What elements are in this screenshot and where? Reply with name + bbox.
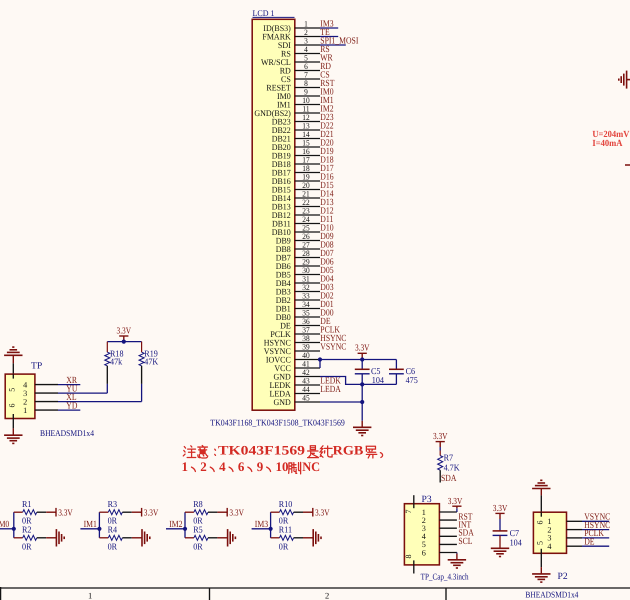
- svg-text:BHEADSMD1x4: BHEADSMD1x4: [40, 428, 95, 438]
- svg-text:4.7K: 4.7K: [444, 463, 460, 473]
- pin 1 ID(BS3): [295, 27, 320, 29]
- connector TP body: [5, 374, 35, 418]
- pin 10 IM1: [295, 104, 320, 106]
- wire TP pin5 to ground: [12, 363, 14, 374]
- svg-text:5: 5: [8, 388, 17, 392]
- svg-text:3.3V: 3.3V: [144, 507, 159, 517]
- net label TE (pin 2): [320, 36, 338, 38]
- pin 45 GND: [295, 401, 320, 403]
- wire P2 pin5 to ground: [540, 553, 542, 567]
- svg-text:R11: R11: [279, 525, 292, 535]
- wire P3 pin6 to ground: [456, 553, 458, 554]
- svg-text:SCL: SCL: [458, 537, 472, 547]
- wire IM0 vertical: [13, 512, 15, 538]
- net label IM3: [252, 528, 271, 530]
- resistor R7 4.7K: [439, 451, 441, 456]
- ground P3: [448, 560, 466, 568]
- svg-text:R7: R7: [444, 453, 454, 463]
- pin 8 RESET: [295, 87, 320, 89]
- pin 32 DB3: [295, 291, 320, 293]
- net label IM1: [80, 528, 99, 530]
- svg-text:47K: 47K: [144, 357, 158, 367]
- power 3.3V C7: [495, 513, 504, 519]
- pin 17 DB18: [295, 163, 320, 165]
- svg-text:7: 7: [404, 510, 413, 514]
- svg-text:3.3V: 3.3V: [117, 325, 132, 335]
- power 3.3V R3: [141, 508, 142, 517]
- wire IM2 vertical: [184, 512, 186, 538]
- svg-text:0R: 0R: [193, 541, 203, 551]
- svg-text:NC: NC: [302, 459, 320, 474]
- connector P2 body: [533, 512, 566, 553]
- pin 33 DB2: [295, 299, 320, 301]
- pin 11 GND(BS2): [295, 112, 320, 114]
- pin 22 DB13: [295, 206, 320, 208]
- svg-text:DE: DE: [584, 537, 595, 547]
- pin 43 LEDK: [295, 384, 320, 386]
- resistor R5 0R: [185, 537, 194, 539]
- pin 24 DB11: [295, 223, 320, 225]
- svg-text:P3: P3: [422, 494, 432, 505]
- resistor R3 0R: [99, 511, 108, 513]
- wire TP pin6 to ground: [12, 419, 14, 429]
- pin 20 DB15: [295, 189, 320, 191]
- svg-text:P2: P2: [558, 571, 568, 582]
- resistor R18: [106, 342, 108, 353]
- resistor R4 0R: [99, 537, 108, 539]
- svg-text:R3: R3: [108, 499, 118, 509]
- svg-text:R10: R10: [279, 499, 293, 509]
- power 3.3V TP: [119, 336, 128, 342]
- pin 31 DB4: [295, 282, 320, 284]
- capacitor C5: [355, 368, 370, 370]
- pin 38 HSYNC: [295, 342, 320, 344]
- pin 40 IOVCC: [295, 359, 320, 361]
- ground R5: [228, 529, 236, 546]
- ground above P2 (inverted): [532, 480, 550, 488]
- pin 37 PCLK: [295, 333, 320, 335]
- note text line 1: [183, 446, 195, 458]
- svg-text:4: 4: [219, 459, 226, 474]
- wire P2 pin6 to ground: [540, 495, 542, 512]
- connector LCD 1 body: [252, 19, 295, 410]
- svg-text:GND: GND: [274, 397, 291, 407]
- svg-text:104: 104: [510, 537, 523, 547]
- svg-text:TK043F1168_TK043F1508_TK043F15: TK043F1168_TK043F1508_TK043F1569: [210, 418, 345, 428]
- svg-text:3.3V: 3.3V: [448, 496, 463, 506]
- power 3.3V R10: [312, 508, 313, 517]
- pin 16 DB19: [295, 155, 320, 157]
- svg-text:6: 6: [238, 459, 245, 474]
- pin 3 SDI: [295, 44, 320, 46]
- svg-text:6: 6: [422, 548, 426, 557]
- connector P3 body: [404, 504, 439, 565]
- svg-text:TP_Cap_4.3inch: TP_Cap_4.3inch: [421, 571, 469, 581]
- svg-text:3.3V: 3.3V: [493, 503, 508, 513]
- svg-text:6: 6: [8, 404, 17, 408]
- wire IM1 vertical: [98, 512, 100, 538]
- ground above TP (inverted): [4, 347, 22, 355]
- svg-text:3.3V: 3.3V: [229, 507, 244, 517]
- svg-text:RGB: RGB: [333, 443, 364, 458]
- svg-text:0R: 0R: [108, 541, 118, 551]
- svg-text:R5: R5: [193, 525, 203, 535]
- svg-text:BHEADSMD1x4: BHEADSMD1x4: [525, 590, 579, 600]
- svg-text:IM0: IM0: [0, 520, 10, 530]
- wire C7 top: [499, 519, 501, 531]
- pin 6 RD: [295, 70, 320, 72]
- pin 23 DB12: [295, 214, 320, 216]
- net label IM2: [166, 528, 185, 530]
- pin 7 CS: [295, 78, 320, 80]
- pin 12 DB23: [295, 121, 320, 123]
- wire pin41 to rail: [319, 360, 321, 369]
- svg-text:0R: 0R: [279, 541, 289, 551]
- svg-text:45: 45: [302, 393, 309, 402]
- svg-text:IM3: IM3: [255, 520, 269, 530]
- ground R4: [142, 529, 150, 546]
- pin 25 DB10: [295, 231, 320, 233]
- junction 3.3V/C5 top: [360, 357, 364, 361]
- power 3.3V P3: [452, 506, 461, 508]
- pin 28 DB7: [295, 257, 320, 259]
- svg-text:47k: 47k: [110, 357, 123, 367]
- resistor R1 0R: [14, 511, 23, 513]
- ground below P2: [532, 574, 550, 582]
- net label PCLK / wire: [582, 537, 609, 539]
- ground LCD: [353, 427, 371, 435]
- capacitor C7 104: [493, 530, 508, 532]
- junction IM3: [269, 527, 273, 531]
- wire C7 bottom: [499, 535, 501, 548]
- pin 5 WR/SCL: [295, 61, 320, 63]
- power 3.3V LCD: [358, 353, 367, 359]
- pin 14 DB21: [295, 138, 320, 140]
- junction pin45/ground: [360, 400, 364, 404]
- svg-text:IM1: IM1: [84, 520, 98, 530]
- resistor R8 0R: [185, 511, 194, 513]
- svg-text:6: 6: [535, 521, 544, 525]
- svg-text:VSYNC: VSYNC: [320, 342, 346, 352]
- svg-text:104: 104: [372, 375, 385, 385]
- pin 44 LEDA: [295, 393, 320, 395]
- power 3.3V R1: [55, 508, 56, 517]
- pin 34 DB1: [295, 308, 320, 310]
- svg-text:3.3V: 3.3V: [433, 431, 448, 441]
- P3 pin8 stub: [413, 565, 415, 574]
- junction IM2: [183, 527, 187, 531]
- wire C6 branch: [395, 360, 397, 370]
- svg-text:1: 1: [23, 406, 27, 415]
- net label VSYNC / wire: [582, 520, 609, 522]
- svg-text:R4: R4: [108, 525, 118, 535]
- ground R2: [56, 529, 64, 546]
- pin 35 DB0: [295, 316, 320, 318]
- wire pin42 GND to cap rail: [320, 377, 396, 385]
- wire 3.3V to R7: [439, 447, 441, 451]
- wire IM3 vertical: [270, 512, 272, 538]
- net label HSYNC / wire: [582, 529, 609, 531]
- capacitor C6: [389, 368, 404, 370]
- svg-text:4: 4: [547, 542, 551, 551]
- wire P3 pin1 to 3.3V: [456, 508, 458, 512]
- svg-text:3.3V: 3.3V: [58, 507, 73, 517]
- svg-text:9: 9: [257, 459, 264, 474]
- power 3.3V R8: [226, 508, 227, 517]
- pin 2 FMARK: [295, 36, 320, 38]
- ground below TP: [4, 435, 22, 443]
- pin 26 DB9: [295, 240, 320, 242]
- svg-text:8: 8: [404, 555, 413, 559]
- pin 39 VSYNC: [295, 350, 320, 352]
- svg-text:R8: R8: [193, 499, 203, 509]
- P3 pin7 stub: [413, 495, 415, 504]
- pin 9 IM0: [295, 95, 320, 97]
- net label SPI1_MOSI (pin 3): [320, 44, 346, 46]
- svg-text:10: 10: [276, 459, 289, 474]
- svg-text:2: 2: [325, 591, 329, 600]
- svg-text:LEDA: LEDA: [320, 385, 341, 395]
- svg-text:0R: 0R: [22, 541, 32, 551]
- pin 4 RS: [295, 53, 320, 55]
- resistor R19: [141, 342, 143, 353]
- pin 27 DB8: [295, 248, 320, 250]
- svg-text:R2: R2: [22, 525, 32, 535]
- pin 30 DB5: [295, 274, 320, 276]
- svg-text:R1: R1: [22, 499, 32, 509]
- junction pin40/41: [318, 357, 322, 361]
- svg-text:3.3V: 3.3V: [355, 343, 370, 353]
- svg-text:5: 5: [535, 541, 544, 545]
- junction C5 bottom: [360, 382, 364, 386]
- pin 29 DB6: [295, 265, 320, 267]
- svg-text:475: 475: [406, 375, 419, 385]
- ground C7: [491, 548, 509, 556]
- wire 3.3V rail R18/R19: [107, 341, 141, 343]
- wire pin40 3.3V rail: [320, 359, 396, 361]
- wire C5 stem: [361, 360, 363, 370]
- net label IM3 (pin 1): [320, 27, 338, 29]
- partial wire at right edge: [625, 164, 630, 166]
- wire pin45 GND: [320, 401, 362, 403]
- resistor R11 0R: [271, 537, 280, 539]
- pin 18 DB17: [295, 172, 320, 174]
- svg-text:I=40mA: I=40mA: [592, 139, 622, 149]
- junction IM0: [12, 527, 16, 531]
- net label DE / wire: [582, 545, 609, 547]
- wire to ground: [361, 384, 363, 420]
- junction IM1: [97, 527, 101, 531]
- sheet border bottom: [0, 587, 630, 589]
- pin 13 DB22: [295, 129, 320, 131]
- svg-text:3.3V: 3.3V: [315, 507, 330, 517]
- pin 19 DB16: [295, 180, 320, 182]
- ground R11: [313, 529, 321, 546]
- resistor R2 0R: [14, 537, 23, 539]
- junction 3.3V rail: [122, 340, 126, 344]
- svg-text:YD: YD: [66, 402, 77, 412]
- svg-text:TP: TP: [31, 361, 42, 372]
- pin 21 DB14: [295, 197, 320, 199]
- svg-text:2: 2: [200, 459, 207, 474]
- net label IM0: [0, 528, 14, 530]
- resistor R10 0R: [271, 511, 280, 513]
- svg-text:1: 1: [182, 459, 189, 474]
- pin 36 DE: [295, 325, 320, 327]
- svg-text:1: 1: [88, 591, 92, 600]
- svg-text:SDA: SDA: [441, 474, 457, 484]
- svg-text:LCD 1: LCD 1: [253, 8, 275, 18]
- svg-text:TK043F1569: TK043F1569: [218, 443, 306, 458]
- pin 41 VCC: [295, 367, 320, 369]
- pin 42 GND: [295, 376, 320, 378]
- pin 15 DB20: [295, 146, 320, 148]
- partial ground at right edge: [619, 71, 630, 89]
- svg-text:IM2: IM2: [169, 520, 183, 530]
